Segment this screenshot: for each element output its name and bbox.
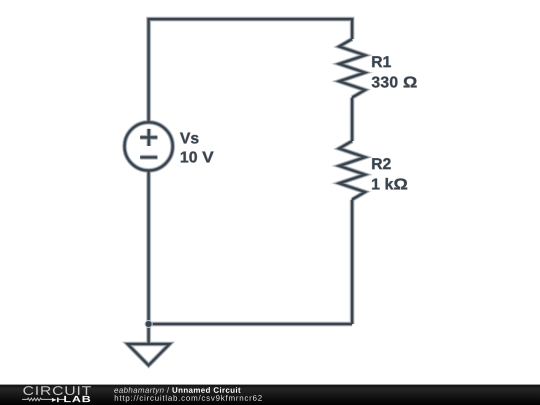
label R1 name — [372, 56, 391, 67]
footer logo resistor zigzag wire — [22, 398, 52, 401]
footer logo diode out wire — [59, 398, 65, 400]
footer logo LAB text — [64, 396, 90, 402]
schematic stroke inner halo layer — [125, 19, 366, 365]
footer logo CIRCUIT text — [23, 386, 91, 395]
label R2 value 1 kohm — [372, 178, 407, 189]
node junction dot at ground net — [145, 320, 153, 328]
schematic stroke ink layer — [125, 19, 366, 365]
footer credit user name italic — [114, 387, 169, 394]
schematic stroke outer halo layer (soft edges) — [125, 19, 366, 365]
footer credit circuit title bold — [172, 387, 240, 393]
footer logo diode triangle — [52, 398, 57, 402]
footer logo diode cathode bar — [57, 398, 59, 403]
label R1 value 330 ohm — [372, 76, 417, 87]
label R2 name — [372, 158, 390, 169]
footer url line — [115, 395, 262, 402]
label Vs value 10 V — [181, 151, 214, 162]
label Vs name — [180, 133, 198, 144]
footer watermark bar — [0, 385, 540, 405]
